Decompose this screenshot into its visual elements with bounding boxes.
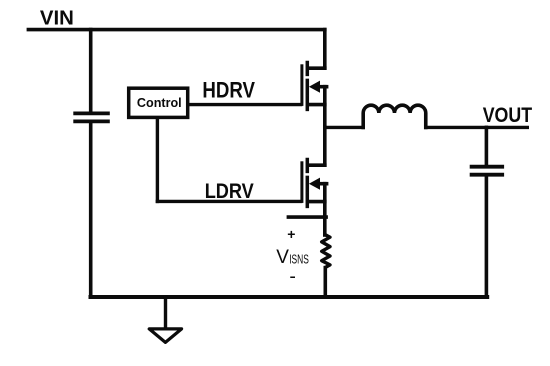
transistor Q2 gate bar [300, 163, 303, 202]
wire LDRV horizontal to Q2 gate [157, 200, 300, 203]
transistor Q1 body arrow [309, 81, 320, 93]
transistor Q2 channel top dash [306, 160, 310, 172]
wire output cap to ground rail [485, 177, 489, 297]
wire VOUT down to output cap [485, 127, 489, 164]
wire left vertical from VIN rail to input cap [89, 30, 93, 112]
transistor Q1 drain lead [309, 66, 325, 70]
transistor Q1 channel middle dash [306, 80, 310, 93]
transistor Q1 body lead [316, 85, 327, 89]
wire LDRV vertical from control box [156, 119, 159, 201]
transistor Q2 drain lead [309, 163, 325, 167]
wire sense resistor to ground rail [323, 268, 327, 297]
transistor Q2 source lead [309, 200, 325, 204]
svg-text:Control: Control [137, 95, 182, 110]
wire switch node to inductor [325, 126, 363, 129]
ground symbol triangle [149, 329, 181, 343]
svg-text:VIN: VIN [40, 7, 74, 29]
svg-text:VOUT: VOUT [483, 104, 533, 128]
resistor RSNS zigzag [322, 235, 330, 268]
svg-text:+: + [287, 226, 295, 242]
svg-text:V: V [276, 247, 289, 268]
wire Q1 source to switch node [323, 87, 327, 128]
capacitor CIN bottom plate [75, 120, 108, 124]
wire Q1 drain vertical from VIN rail [323, 30, 327, 69]
wire current sense tap [288, 215, 326, 219]
inductor L1 [363, 105, 426, 127]
capacitor CIN top plate [75, 112, 108, 116]
transistor Q1 channel top dash [306, 63, 310, 75]
wire left vertical from input cap to ground rail [89, 123, 93, 297]
transistor Q1 gate bar [300, 66, 303, 105]
svg-text:HDRV: HDRV [202, 79, 255, 103]
wire inductor to VOUT [426, 126, 528, 129]
wire ground stub [164, 297, 167, 327]
wire Q2 source down to sense resistor [323, 184, 327, 235]
transistor Q2 channel bottom dash [306, 194, 310, 207]
transistor Q1 high-side NMOS [302, 63, 327, 110]
transistor Q2 channel middle dash [306, 177, 310, 190]
wire ground rail [91, 295, 488, 299]
wire HDRV from control box to Q1 gate [189, 103, 300, 106]
transistor Q2 body arrow [309, 178, 320, 190]
svg-text:-: - [289, 265, 296, 287]
capacitor COUT bottom plate [472, 173, 503, 177]
transistor Q2 low-side NMOS [302, 160, 327, 207]
transistor Q1 channel bottom dash [306, 97, 310, 110]
transistor Q2 body lead [316, 182, 327, 186]
op-amp control block U1 box [129, 88, 188, 117]
capacitor COUT top plate [472, 165, 503, 169]
wire Q2 drain vertical from switch node [323, 127, 327, 165]
svg-text:LDRV: LDRV [205, 180, 255, 204]
wire VIN top rail [28, 28, 324, 32]
transistor Q1 source lead [309, 103, 325, 107]
